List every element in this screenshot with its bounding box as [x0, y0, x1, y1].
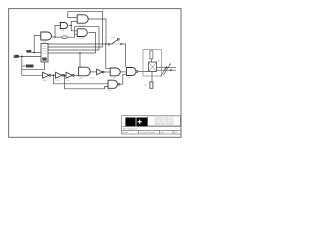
junction inverter rail drop 2 — [64, 74, 66, 76]
net label LB2 — [26, 65, 34, 68]
wire CLK junction down left side — [21, 56, 23, 75]
and-gate G5 — [110, 68, 120, 76]
svg-text:U4A: U4A — [43, 79, 48, 82]
wire A1 out to inv4 — [90, 71, 96, 73]
and-gate A1 — [79, 67, 91, 76]
wire bottom-left rail upper — [22, 69, 45, 71]
wire inv4 out to G5 — [104, 71, 110, 73]
svg-text:74LS08: 74LS08 — [78, 38, 86, 40]
junction buzzer output wire a — [166, 66, 168, 68]
wire chip pin rail 3 — [48, 49, 99, 51]
wire mid feedback down right side — [98, 27, 100, 50]
wire junction down to G4 upper input — [71, 26, 77, 31]
wire inverter chain rail — [22, 74, 43, 76]
wire oval to G4 lower branch — [67, 34, 74, 37]
wire drop1 to lower rail a — [54, 75, 109, 84]
svg-text:Document Number: Document Number — [140, 131, 155, 134]
and-gate G7 — [108, 80, 120, 88]
svg-text:U3A: U3A — [61, 29, 66, 32]
net label LB1 — [26, 50, 31, 53]
wire chip pin rail 2 — [48, 46, 103, 48]
junction buzzer output wire b — [170, 69, 172, 71]
svg-text:U1A: U1A — [42, 41, 47, 44]
title row3 cells — [123, 131, 178, 134]
buzzer LS1 — [149, 62, 157, 72]
junction G1 input tap — [33, 52, 35, 54]
wire G7 out up to G6 lower input — [120, 74, 127, 84]
svg-text:CLK: CLK — [14, 61, 19, 63]
svg-text:Size A: Size A — [123, 131, 129, 134]
wire G5 top input drop2 — [106, 44, 110, 69]
svg-text:74LS08: 74LS08 — [78, 25, 86, 27]
junction G1 output branch — [54, 36, 56, 38]
svg-text:U5B: U5B — [112, 78, 117, 80]
wire buzzer top lead — [150, 59, 152, 62]
title text box — [148, 116, 181, 126]
wire G1 input vertical — [34, 36, 41, 53]
wire G6 out to buzzer — [138, 71, 149, 73]
svg-text:Digital Design Laboratory: Digital Design Laboratory — [155, 123, 174, 126]
wire switch to G6 top — [121, 44, 126, 67]
svg-text:U4B: U4B — [56, 80, 61, 82]
inverter V1 — [43, 72, 51, 78]
svg-text:Title: Digital lock: Title: Digital lock — [123, 127, 138, 130]
wire buzzer bottom lead to R2 — [151, 72, 153, 82]
sheet border frame — [9, 9, 181, 138]
wire LB1 to chip — [31, 51, 41, 53]
and-gate G3 — [77, 15, 88, 23]
counter chip U2 — [41, 44, 48, 63]
wire drop2 to lower rail b — [65, 75, 109, 89]
junction CLK node — [21, 56, 23, 58]
wire inv2 to inv3 — [64, 74, 66, 76]
buzzer enclosure box — [143, 50, 162, 77]
wire G5 top input drop — [108, 44, 110, 46]
wire buzzer out lower — [157, 69, 177, 71]
switch S1 lever — [112, 38, 120, 44]
wire chip pin rail 1 — [48, 43, 106, 45]
wire chip pin rail 4 — [48, 52, 96, 54]
junction G2 output branch — [70, 25, 72, 27]
and-gate G1 — [41, 32, 52, 40]
inverter V3 — [66, 72, 74, 78]
svg-text:U4D: U4D — [91, 78, 96, 80]
resistor R2 bottom — [150, 82, 153, 88]
resistor oval RP1 — [62, 36, 68, 39]
wire CLK to chip — [19, 55, 41, 57]
wire chip bottom stub — [44, 62, 46, 70]
title row2 text — [123, 127, 138, 130]
svg-text:U5D: U5D — [108, 90, 113, 92]
inverter V4 — [97, 69, 104, 75]
junction switch rail left — [105, 43, 107, 45]
and-gate G6 — [127, 68, 138, 76]
junction inverter rail drop 1 — [53, 74, 55, 76]
inverter V2 — [56, 72, 64, 78]
or-gate G2 — [60, 23, 68, 29]
wire top rail down right side — [102, 11, 104, 47]
svg-text:U5A: U5A — [79, 77, 84, 80]
and-gate G4 — [77, 29, 87, 37]
wire inv1 to inv2 — [51, 74, 56, 76]
wire top rail drop to G3 input — [68, 11, 77, 17]
wire feedback mid rail to G4 lower input — [75, 27, 99, 35]
title block outer frame — [122, 116, 181, 134]
wire G4 output down right side — [89, 33, 96, 54]
junction switch terminal b — [120, 43, 122, 45]
wire inv3 to A1 — [74, 74, 78, 76]
wire G1 out to oval — [52, 36, 62, 38]
wire top feedback rail — [68, 10, 103, 12]
wire switch rail — [106, 43, 112, 45]
svg-text:Date: Date — [160, 131, 164, 134]
wire G2 output to junction — [69, 25, 72, 27]
wire LB2 stub — [22, 65, 26, 67]
junction switch terminal a — [108, 43, 110, 45]
resistor R1 top — [150, 51, 153, 59]
wire A1 top input drop — [79, 53, 81, 67]
wire G1 branch up to G2 input — [55, 26, 60, 38]
arrow a1 — [161, 63, 171, 76]
wire G5 out to G6 — [120, 71, 126, 73]
wire junction up to G3 lower input — [71, 21, 77, 25]
junction A1 top input tap — [79, 52, 81, 54]
wire buzzer out upper — [157, 66, 177, 68]
logo block — [125, 118, 147, 127]
input port CLK — [14, 55, 19, 58]
svg-text:U4C: U4C — [66, 80, 71, 82]
wire G3 output down right side — [89, 19, 107, 44]
svg-text:U5C: U5C — [127, 77, 132, 79]
wire switch rail under lever — [112, 43, 122, 45]
